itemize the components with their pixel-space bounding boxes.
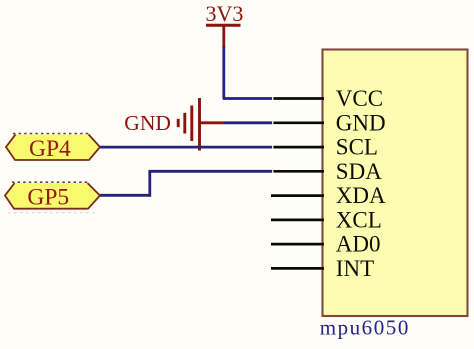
svg-text:VCC: VCC	[336, 86, 383, 111]
pin name label XDA	[336, 183, 386, 208]
pin SCL (pin stub)	[273, 146, 324, 149]
3V3 net label	[206, 1, 244, 26]
pin name label XCL	[336, 208, 382, 233]
component U1 mpu6050 body	[323, 50, 468, 317]
pin XDA (pin stub)	[271, 194, 324, 197]
power symbol 3V3	[206, 25, 241, 48]
pin XCL (pin stub)	[271, 219, 324, 222]
svg-text:GP5: GP5	[27, 185, 69, 211]
pin name label VCC	[336, 86, 383, 111]
pin INT (pin stub)	[271, 267, 324, 270]
svg-text:3V3: 3V3	[206, 1, 244, 26]
svg-text:GP4: GP4	[29, 136, 71, 162]
wire 3V3 to VCC (vertical segment)	[222, 47, 225, 99]
ground symbol GND	[178, 98, 199, 151]
svg-text:INT: INT	[336, 256, 374, 281]
wire GP5 to SDA (vertical segment)	[148, 171, 151, 196]
pin VCC (pin stub)	[273, 97, 324, 100]
pin name label INT	[336, 256, 374, 281]
GP5 port label	[27, 185, 69, 211]
svg-text:SDA: SDA	[336, 159, 382, 184]
wire GP4 to SCL	[100, 146, 272, 149]
wire 3V3 to VCC (horizontal segment)	[223, 97, 272, 100]
svg-text:mpu6050: mpu6050	[320, 316, 410, 340]
svg-text:XCL: XCL	[336, 208, 382, 233]
wire GP5 to SDA (horizontal lower segment)	[100, 194, 151, 197]
pin name label SDA	[336, 159, 382, 184]
svg-text:GND: GND	[336, 110, 386, 135]
pin GND (pin stub)	[273, 121, 324, 124]
svg-text:SCL: SCL	[336, 135, 378, 160]
GP4 port label	[29, 136, 71, 162]
wire GP5 to SDA (horizontal upper segment)	[148, 170, 272, 173]
GND net label	[124, 111, 171, 135]
svg-text:GND: GND	[124, 111, 171, 135]
pin name label SCL	[336, 135, 378, 160]
faint ghost dashes under port GP5	[8, 212, 98, 214]
svg-text:AD0: AD0	[336, 232, 381, 257]
port GP4	[6, 134, 100, 161]
wire ground to GND pin (blue segment)	[224, 121, 272, 124]
pin AD0 (pin stub)	[271, 243, 324, 246]
svg-text:XDA: XDA	[336, 183, 386, 208]
wire ground stem to GND pin (dark red segment)	[199, 121, 224, 124]
pin name label AD0	[336, 232, 381, 257]
pin SDA (pin stub)	[273, 170, 324, 173]
pin name label GND	[336, 110, 386, 135]
port GP5	[5, 182, 100, 209]
component name label mpu6050	[320, 316, 410, 340]
